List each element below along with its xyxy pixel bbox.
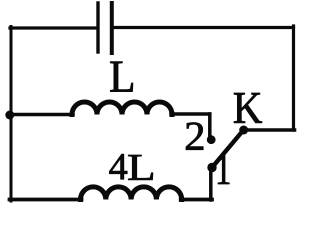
wire L branch left (10, 113, 74, 117)
capacitor C1 left plate (96, 3, 99, 52)
wire top-left (top-left corner to capacitor left plate) (10, 26, 97, 29)
node contact 1 dot (207, 163, 216, 172)
wire stub down to contact 2 (208, 114, 212, 137)
wire top-right (capacitor right plate to top-right corner) (113, 26, 294, 29)
inductor L coil (72, 102, 172, 115)
wire K-pivot feed (244, 128, 295, 132)
wire bottom-right vertical up to contact 1 (209, 168, 213, 201)
label K (switch) (234, 93, 262, 123)
capacitor C1 right plate (110, 3, 114, 53)
label L (inductor L value) (110, 62, 133, 92)
node junction dot on left wire (5, 111, 14, 120)
label 4 (of 4L) (109, 154, 127, 179)
label L (of 4L) (128, 155, 153, 180)
wire L branch right (171, 112, 210, 116)
node contact 2 dot (207, 135, 216, 144)
inductor 4L coil (81, 187, 182, 200)
switch K blade (from pivot to contact 1) (212, 130, 244, 168)
wire bottom-left (to 4L coil) (10, 198, 82, 202)
label 1 (contact 1) (218, 155, 229, 184)
label 2 (contact 2) (186, 123, 203, 150)
wire right vertical (292, 26, 295, 130)
wire bottom-right (4L coil to contact-1 riser) (181, 198, 212, 202)
node K pivot dot (239, 126, 248, 135)
wire left vertical (10, 27, 13, 202)
